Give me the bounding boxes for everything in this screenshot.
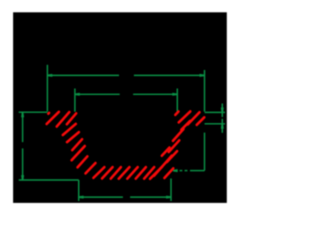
- dimension line D4 bottom width, right segment: [130, 196, 171, 198]
- extension line from inner top-left corner: [74, 89, 76, 112]
- extension line right flange bottom: [205, 123, 225, 125]
- arrowhead D4 right: [166, 196, 171, 199]
- arrowhead D4 left: [79, 196, 84, 199]
- arrowhead D3 bottom: [21, 175, 24, 180]
- arrowhead D2 left: [75, 93, 80, 96]
- extension line from top-right outer corner: [204, 70, 206, 112]
- extension line from bottom-left corner: [78, 180, 80, 201]
- lower arrow stem of thickness dimension: [221, 119, 223, 133]
- hatch right wall of channel cross-section: [154, 121, 190, 176]
- extension line from inner top-right corner: [176, 89, 178, 114]
- arrowhead thickness lower: [221, 124, 224, 129]
- drawing canvas background: [13, 12, 227, 203]
- hatch right flange of channel cross-section: [175, 111, 204, 125]
- dimension line D1 top outer width, right segment: [134, 74, 205, 76]
- dimension line D2 opening width, left segment: [75, 93, 120, 95]
- dimension line D1 top outer width, left segment: [47, 74, 119, 76]
- arrowhead D2 right: [172, 93, 177, 96]
- arrowhead thickness upper: [221, 108, 224, 113]
- extension line from bottom-right corner: [170, 179, 172, 202]
- dimension line D3 height, lower segment: [22, 148, 24, 180]
- arrowhead D1 right: [200, 74, 205, 77]
- leader line dash: [185, 170, 188, 172]
- upper arrow stem of thickness dimension: [221, 104, 223, 118]
- arrowhead D3 top: [21, 113, 24, 118]
- hatch web of channel cross-section: [93, 167, 173, 179]
- dimension line D2 opening width, right segment: [133, 93, 177, 95]
- extension line right flange top: [205, 111, 225, 113]
- extension line bottom-left, horizontal: [19, 179, 79, 181]
- arrowhead D1 left: [48, 74, 53, 77]
- leader line segment to jog: [190, 170, 205, 172]
- extension line top-left, horizontal: [19, 111, 48, 113]
- leader jog vertical: [204, 133, 206, 171]
- leader line segment at arrow: [180, 170, 183, 172]
- hatch left wall of channel cross-section: [63, 124, 96, 173]
- extension line from top-left outer corner: [46, 65, 48, 112]
- dimension line D4 bottom width, left segment: [79, 196, 123, 198]
- dimension line D3 height, upper segment: [22, 112, 24, 142]
- hatch left flange of channel cross-section: [47, 112, 77, 127]
- arrowhead of leader: [173, 169, 178, 172]
